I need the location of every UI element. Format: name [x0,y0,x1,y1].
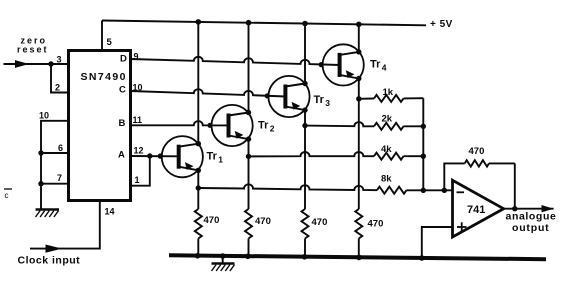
svg-text:11: 11 [133,115,143,125]
svg-text:c: c [5,191,9,200]
wire non-inverting input to ground [422,227,453,258]
wire pin 1 link [131,156,150,186]
svg-text:741: 741 [467,204,485,216]
ground (left) [36,210,60,218]
wire to pin 2 [51,64,69,93]
wire col2 upper [248,23,250,113]
wire col4 upper [358,24,360,52]
node D-Tr4 [319,62,324,67]
node pin3/pin2 junction [48,61,53,66]
svg-text:C: C [119,85,126,96]
node bus-opamp [419,255,425,261]
wire summing line [422,98,424,190]
node rail-col1 [196,19,202,25]
node sum-4k [421,154,426,159]
svg-text:Tr: Tr [370,59,381,71]
resistor R3 4k [249,144,424,160]
wire col3 lower [304,110,306,209]
node bus-col1 [195,253,201,259]
transistor Tr3 [268,76,330,117]
node col1-8k [196,185,201,190]
svg-text:470: 470 [312,217,328,228]
node col4-1k [356,96,361,101]
svg-text:2k: 2k [382,114,393,125]
svg-text:SN7490: SN7490 [81,71,127,83]
svg-text:5: 5 [107,37,113,48]
node bus-col4 [356,255,362,261]
svg-text:Tr: Tr [258,120,269,132]
node sum-2k [421,124,426,129]
node pin7 [38,181,43,186]
svg-text:3: 3 [57,55,62,65]
node rail-col4 [356,22,362,28]
node pin6 [38,150,43,155]
zero reset label [17,36,49,55]
op-amp U2 741 [453,180,504,237]
node B-Tr2 [207,123,212,128]
svg-text:A: A [118,149,125,160]
svg-text:8k: 8k [381,174,392,185]
transistor Tr4 [323,44,387,85]
wire col1 lower [197,170,199,209]
svg-text:B: B [119,118,126,129]
resistor R6 470 (col2) [245,209,271,257]
svg-text:1: 1 [135,175,140,185]
wire col1 upper [197,22,199,144]
node col2-4k [246,154,251,159]
wire zero reset input [4,60,69,68]
node sum-inv [421,188,426,193]
node A-Tr1 [158,153,163,158]
svg-text:7: 7 [57,173,62,183]
wire col3 upper [304,24,306,84]
analogue output label [506,211,557,235]
node bus-col3 [302,254,308,260]
+5V rail [102,19,453,30]
svg-text:3: 3 [325,98,330,108]
svg-text:D: D [120,54,127,65]
resistor R5 470 (col1) [195,209,220,256]
svg-text:14: 14 [105,207,115,217]
svg-text:470: 470 [255,216,271,227]
node bus-col2 [245,253,251,259]
node C-Tr3 [265,93,270,98]
svg-text:1: 1 [218,155,223,165]
svg-text:+ 5V: + 5V [430,19,453,30]
wire A line (pin 12 to Tr1 base) [131,155,179,157]
svg-text:6: 6 [58,143,63,153]
wire C line (pin 10 to Tr3 base) [131,89,286,96]
wire output [504,205,554,212]
wire pin 10 to ground [41,121,69,210]
svg-text:4k: 4k [381,144,392,155]
ground (bottom centre) [212,256,235,271]
svg-text:12: 12 [134,146,144,156]
wire pin 6 [41,152,69,154]
ground bus [169,255,546,259]
node fb-out [512,206,517,211]
svg-text:470: 470 [368,219,384,230]
resistor R7 470 (col3) [302,209,328,257]
node rail-col3 [302,21,308,27]
wire pin14 riser [30,201,100,249]
svg-text:reset: reset [17,45,49,55]
IC U1 SN7490 [69,51,131,201]
svg-text:Tr: Tr [314,94,325,106]
wire pin 7 [41,183,69,185]
wire D line (pin 9 to Tr4 base) [131,57,340,65]
svg-text:4: 4 [382,63,387,73]
resistor R1 1k [359,87,424,102]
svg-text:470: 470 [204,215,220,226]
svg-text:analogue: analogue [506,211,557,223]
svg-text:output: output [512,222,549,234]
clock arrow [46,245,63,253]
resistor R4 8k [198,174,452,194]
svg-text:Tr: Tr [207,151,218,163]
node bus-gnd [220,253,226,259]
svg-text:10: 10 [39,111,49,121]
svg-text:2: 2 [55,83,60,93]
wire col2 lower [248,139,250,209]
node col3-2k [302,123,307,128]
wire col4 lower [358,79,360,210]
resistor R2 2k [305,114,423,130]
svg-text:2: 2 [270,124,275,134]
page-edge artifact (partial letter) [4,189,12,200]
svg-text:470: 470 [469,146,485,157]
resistor R8 470 (col4) [355,209,383,257]
transistor Tr1 [162,136,224,177]
node rail-col2 [246,20,252,26]
svg-text:1k: 1k [383,87,394,98]
svg-text:Clock input: Clock input [18,255,81,267]
wire pin5 riser [101,21,103,51]
transistor Tr2 [212,105,275,146]
resistor R9 470 feedback [444,146,515,209]
wire B line (pin 11 to Tr2 base) [131,121,229,125]
node fb-inv [442,188,447,193]
node A-pin1 [147,153,152,158]
